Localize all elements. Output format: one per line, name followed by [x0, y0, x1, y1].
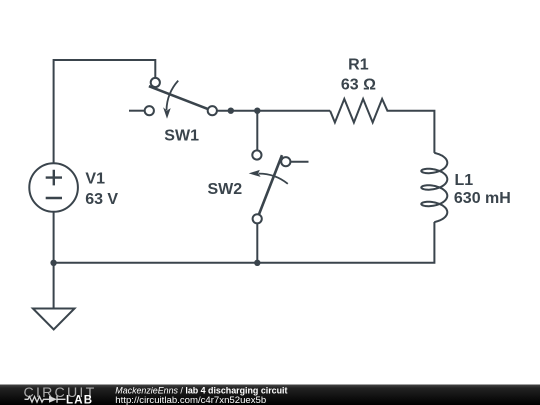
logo schematic line with resistor and diode: [25, 396, 66, 403]
switch SW2: [249, 150, 291, 223]
svg-text:L1: L1: [455, 172, 474, 189]
inductor L1: [421, 153, 447, 222]
switch SW1: [145, 78, 217, 119]
svg-text:LAB: LAB: [66, 394, 93, 405]
node: [50, 260, 56, 266]
svg-text:630 mH: 630 mH: [454, 190, 511, 207]
footer bar: [0, 385, 540, 405]
wire: [256, 111, 258, 151]
node junction dots: [50, 108, 260, 266]
svg-text:MackenzieEnns / lab 4 discharg: MackenzieEnns / lab 4 discharging circui…: [115, 385, 287, 395]
ground: [33, 309, 75, 330]
svg-text:SW2: SW2: [208, 181, 243, 198]
node: [254, 108, 260, 114]
wire: [54, 60, 156, 163]
svg-text:63 Ω: 63 Ω: [341, 76, 376, 93]
wire: [54, 222, 435, 263]
svg-text:63 V: 63 V: [85, 191, 118, 208]
node: [254, 260, 260, 266]
wire: [290, 161, 308, 163]
node: [228, 108, 234, 114]
svg-text:R1: R1: [348, 57, 369, 74]
wire: [256, 223, 258, 262]
voltage source V1: [29, 163, 78, 212]
wire: [217, 110, 330, 112]
svg-text:SW1: SW1: [164, 127, 199, 144]
wire: [129, 110, 145, 112]
resistor R1: [330, 99, 434, 153]
svg-text:V1: V1: [85, 171, 105, 188]
svg-text:http://circuitlab.com/c4r7xn52: http://circuitlab.com/c4r7xn52uex5b: [115, 395, 266, 405]
wire: [53, 212, 55, 309]
